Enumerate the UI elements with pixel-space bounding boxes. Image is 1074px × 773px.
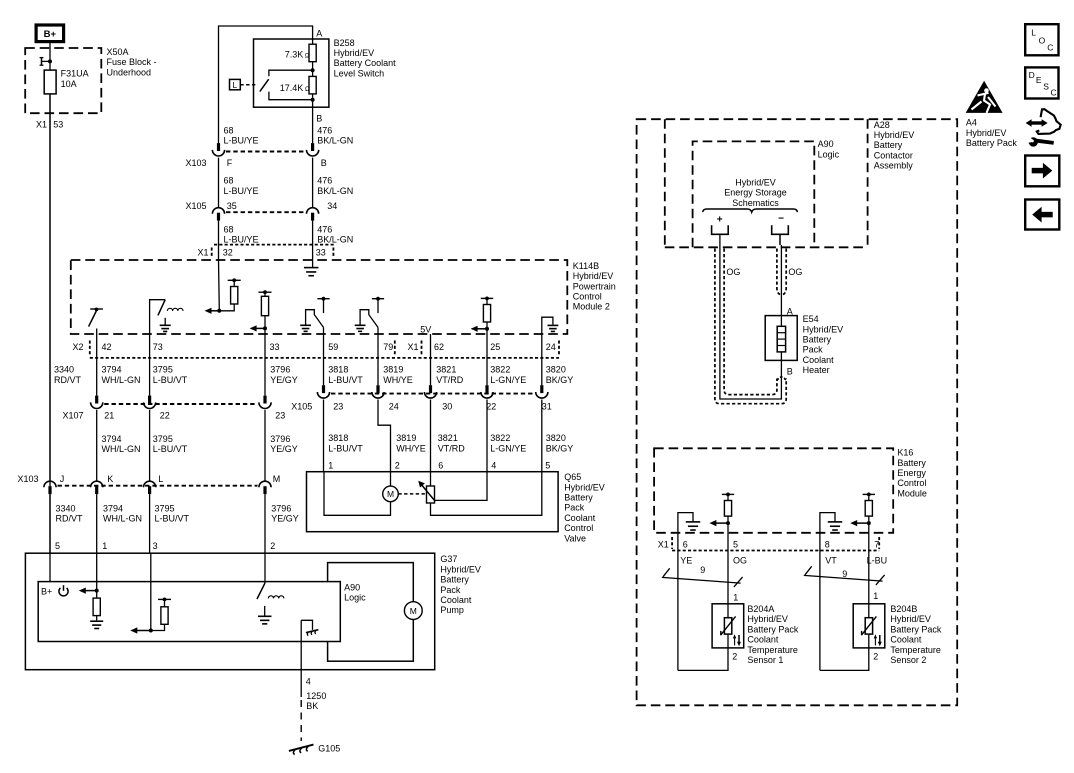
svg-text:YE/GY: YE/GY <box>271 514 299 524</box>
brace over battery terminals <box>703 209 798 212</box>
svg-text:Logic: Logic <box>818 149 840 159</box>
label G37 Hybrid/EV Battery Pack Coolant Pump <box>440 554 481 615</box>
svg-text:YE/GY: YE/GY <box>270 444 298 454</box>
motor M in Q65 <box>383 486 399 502</box>
label B204A Hybrid/EV Battery Pack Coolant Temperature Sensor 1 <box>747 604 799 665</box>
label X103 J K L M <box>18 474 281 484</box>
wire label 3820 BK/GY lower <box>546 433 574 453</box>
svg-text:5V: 5V <box>420 325 431 335</box>
internal ground on pin 8 <box>820 513 842 533</box>
svg-text:Battery: Battery <box>803 335 832 345</box>
svg-text:Sensor 1: Sensor 1 <box>747 655 783 665</box>
wire label 68 L-BU/YE <box>224 176 259 196</box>
label 17.4K ohm <box>280 83 310 93</box>
wire YE <box>677 533 679 671</box>
svg-text:BK/GY: BK/GY <box>546 375 574 385</box>
signal arrow (input) on pin 32 <box>205 308 220 314</box>
svg-text:Assembly: Assembly <box>874 161 914 171</box>
svg-text:M: M <box>273 474 281 484</box>
label B pin E54 <box>787 366 793 376</box>
svg-text:+: + <box>717 214 723 225</box>
ground G105 rake <box>289 745 314 755</box>
svg-text:L: L <box>1031 27 1036 37</box>
wire - valve bottom loop to pin 5 <box>431 472 542 516</box>
svg-text:B: B <box>316 114 322 124</box>
svg-text:A28: A28 <box>874 120 890 130</box>
svg-text:4: 4 <box>306 677 311 687</box>
wire label 3795 L-BU/VT lower2 <box>155 503 190 523</box>
svg-text:2: 2 <box>270 541 275 551</box>
wire 3822 L-GN/YE to X105 <box>486 334 488 385</box>
label OG left <box>726 267 740 277</box>
ground contact under pin2 switch <box>258 606 272 624</box>
svg-text:5: 5 <box>733 540 738 550</box>
label OG sensor <box>733 555 747 565</box>
internal switch on pin 42 <box>89 308 103 335</box>
resistor 17.4K ohm <box>309 70 316 100</box>
svg-text:30: 30 <box>442 402 452 412</box>
svg-text:G105: G105 <box>318 744 340 754</box>
svg-text:33: 33 <box>270 342 280 352</box>
thermistor in B204B <box>862 616 877 635</box>
svg-text:Ω: Ω <box>305 53 310 59</box>
level sensor bulb L <box>230 79 241 90</box>
svg-text:B258: B258 <box>334 38 355 48</box>
svg-text:42: 42 <box>102 342 112 352</box>
svg-text:35: 35 <box>227 201 237 211</box>
wire label 3818 L-BU/VT <box>328 365 363 385</box>
svg-text:Control: Control <box>897 478 926 488</box>
wire label 3794 WH/L-GN <box>102 365 141 385</box>
wire 3821 VT/RD to X105 <box>430 334 432 385</box>
connector X1 row (dotted) <box>212 245 334 257</box>
svg-text:Battery: Battery <box>874 140 903 150</box>
wire label 3795 L-BU/VT lower <box>153 434 188 454</box>
fuse tap clip symbol <box>40 58 50 66</box>
wire label 3795 L-BU/VT <box>153 365 188 385</box>
svg-text:3796: 3796 <box>270 365 290 375</box>
float switch upper contact <box>269 70 313 76</box>
icon box forward arrow <box>1025 156 1059 187</box>
pull-up resistor on pin 5 <box>722 493 734 533</box>
svg-text:Energy Storage: Energy Storage <box>724 188 787 198</box>
connector X105 pin 35 <box>212 208 224 221</box>
component box E54 <box>765 316 797 361</box>
svg-text:Hybrid/EV: Hybrid/EV <box>874 130 915 140</box>
wire 3794 WH/L-GN to X107 <box>96 334 98 396</box>
svg-text:Hybrid/EV: Hybrid/EV <box>564 482 605 492</box>
svg-text:Coolant: Coolant <box>440 595 472 605</box>
component box B204A <box>712 604 744 648</box>
svg-text:B: B <box>787 366 793 376</box>
svg-text:5: 5 <box>55 541 60 551</box>
svg-text:L-BU/VT: L-BU/VT <box>328 443 363 453</box>
svg-text:Pack: Pack <box>803 345 824 355</box>
svg-text:Pump: Pump <box>440 605 464 615</box>
svg-text:Battery Pack: Battery Pack <box>966 138 1018 148</box>
internal relay switch on pin 73 <box>150 300 166 334</box>
wire label 476 BK/L-GN <box>317 125 353 145</box>
wire through E54 <box>780 316 782 361</box>
svg-text:Q65: Q65 <box>564 472 581 482</box>
wire - Q65 pin2 to motor top <box>390 472 392 486</box>
label B258 Hybrid/EV Battery Coolant Level Switch <box>334 38 397 79</box>
label A90 Logic <box>344 583 366 603</box>
svg-text:1: 1 <box>873 591 878 601</box>
svg-text:62: 62 <box>434 342 444 352</box>
wire 3340 RD/VT label <box>54 365 82 385</box>
wire to G37 <box>149 494 151 553</box>
thermistor in B204A <box>721 616 736 635</box>
wire 3821 to Q65 pin 6 <box>430 400 432 472</box>
svg-text:K16: K16 <box>897 448 913 458</box>
svg-text:2: 2 <box>395 461 400 471</box>
svg-text:5: 5 <box>545 461 550 471</box>
wire - pin3 to junction <box>150 553 152 630</box>
svg-text:Coolant: Coolant <box>747 635 779 645</box>
svg-text:476: 476 <box>317 125 332 135</box>
label + terminal <box>717 214 723 225</box>
icon service manual hand <box>1026 109 1061 146</box>
svg-text:Level Switch: Level Switch <box>334 68 385 78</box>
svg-text:BK: BK <box>306 701 318 711</box>
conduit outline outer <box>715 249 786 404</box>
label X1 32 33 <box>198 248 326 258</box>
svg-text:Battery: Battery <box>564 493 593 503</box>
svg-text:53: 53 <box>53 120 63 130</box>
label 9 right <box>842 569 847 579</box>
svg-text:3820: 3820 <box>546 365 566 375</box>
wire - battery - (OG) to E54 A <box>780 234 781 315</box>
svg-text:34: 34 <box>327 201 337 211</box>
svg-text:Hybrid/EV: Hybrid/EV <box>334 48 375 58</box>
svg-text:F31UA: F31UA <box>61 69 89 79</box>
dashed connector line X107 <box>104 403 257 405</box>
svg-text:A90: A90 <box>344 583 360 593</box>
svg-text:33: 33 <box>316 248 326 258</box>
relay coil in A90 <box>268 596 284 599</box>
module K16 (dashed box) <box>654 448 893 533</box>
svg-text:25: 25 <box>490 342 500 352</box>
wire label 3794 WH/L-GN lower2 <box>103 503 142 523</box>
svg-text:2: 2 <box>873 651 878 661</box>
pull-up resistor on pin 33 <box>259 290 272 334</box>
svg-text:OG: OG <box>788 267 802 277</box>
float switch blade <box>260 79 269 91</box>
svg-text:VT: VT <box>825 555 837 565</box>
svg-text:X2: X2 <box>73 342 84 352</box>
signal arrow on pin 7 <box>850 520 871 526</box>
conduit upper segment around - wire <box>777 249 786 295</box>
battery pack A4 (dashed box) <box>637 119 958 705</box>
svg-text:F: F <box>227 158 233 168</box>
ground at pin 79 switch <box>355 325 366 331</box>
svg-text:10A: 10A <box>61 79 77 89</box>
sense resistor pin3 <box>151 598 171 631</box>
svg-text:3822: 3822 <box>490 433 510 443</box>
svg-text:B: B <box>321 158 327 168</box>
svg-text:68: 68 <box>224 176 234 186</box>
temp arrows in B204A <box>733 634 741 646</box>
wire 3796 YE/GY to X107 <box>264 334 266 396</box>
label VT <box>825 555 837 565</box>
battery - terminal <box>772 225 789 234</box>
wire - pin B down to connector X103 B <box>312 100 314 143</box>
icon box back arrow <box>1025 200 1059 230</box>
wire - X1 pin 32 into module <box>218 260 221 311</box>
wire label 3794 WH/L-GN lower <box>102 434 141 454</box>
svg-text:24: 24 <box>546 342 556 352</box>
svg-text:OG: OG <box>726 267 740 277</box>
internal ground on pin 24 <box>542 317 559 334</box>
wire - pin1 to driver junction <box>96 553 98 590</box>
svg-text:1: 1 <box>328 461 333 471</box>
label A pin E54 <box>787 306 793 316</box>
label A90 Logic right <box>818 139 840 159</box>
component box B204B <box>853 604 885 648</box>
svg-text:3821: 3821 <box>438 433 458 443</box>
valve arrow <box>418 481 435 502</box>
svg-text:C: C <box>1051 88 1057 98</box>
label OG right <box>788 267 802 277</box>
connector X103 pin F <box>212 143 224 156</box>
signal arrow on pin 25 <box>471 326 489 332</box>
svg-text:X103: X103 <box>18 474 39 484</box>
svg-text:8: 8 <box>825 540 830 550</box>
pull-down resistor pin1 <box>93 591 100 621</box>
svg-text:WH/YE: WH/YE <box>383 375 413 385</box>
internal switch on pin 79 <box>360 297 384 334</box>
wire label 3822 L-GN/YE lower <box>490 433 526 453</box>
connector row X2/X1 (dotted) <box>90 341 559 358</box>
svg-text:Coolant: Coolant <box>564 513 596 523</box>
svg-text:J: J <box>60 474 65 484</box>
label 7.3K ohm <box>285 49 310 59</box>
svg-text:BK/L-GN: BK/L-GN <box>317 136 353 146</box>
svg-text:−: − <box>778 213 784 224</box>
connector X105 pin 31 <box>536 385 548 398</box>
svg-text:17.4K: 17.4K <box>280 83 304 93</box>
svg-text:59: 59 <box>328 342 338 352</box>
svg-text:73: 73 <box>153 342 163 352</box>
wire 3820 BK/GY to X105 <box>541 334 543 385</box>
float switch lower contact <box>269 92 313 100</box>
svg-text:1: 1 <box>733 593 738 603</box>
wire 68 L-BU/YE seg3 <box>218 221 220 260</box>
label X1 53 at fuse block exit <box>36 120 63 130</box>
wire 3340 RD/VT to X103 J <box>49 94 51 481</box>
wire 476 BK/L-GN seg2 <box>312 158 314 207</box>
svg-text:7: 7 <box>874 540 879 550</box>
labels Q65 pins 1 2 6 4 5 <box>328 461 550 471</box>
power symbol <box>59 585 68 596</box>
svg-text:68: 68 <box>224 125 234 135</box>
fuse block X50A (dashed box) <box>25 48 101 113</box>
wire - pin2 to relay switch <box>264 553 266 583</box>
svg-text:YE/GY: YE/GY <box>270 375 298 385</box>
svg-text:79: 79 <box>383 342 393 352</box>
wire label 476 BK/L-GN <box>317 176 353 196</box>
conduit cap below E54 B <box>777 377 786 381</box>
warning triangle A4 high voltage <box>966 81 1003 113</box>
connector X105 pin 23 <box>317 385 329 398</box>
svg-text:Pack: Pack <box>564 503 585 513</box>
connector X103 pin B <box>307 143 319 156</box>
signal arrow to power control <box>79 588 99 594</box>
svg-text:L-GN/YE: L-GN/YE <box>490 443 526 453</box>
svg-text:3820: 3820 <box>546 433 566 443</box>
wire to G37 <box>49 494 51 553</box>
chassis ground rake <box>306 630 318 636</box>
component box G37 <box>25 553 434 670</box>
svg-text:G37: G37 <box>440 554 457 564</box>
wire label 68 L-BU/YE <box>224 224 259 244</box>
svg-text:Hybrid/EV: Hybrid/EV <box>735 178 776 188</box>
svg-text:L-BU/VT: L-BU/VT <box>155 514 190 524</box>
svg-text:68: 68 <box>224 224 234 234</box>
wire - valve side to pin 4 <box>435 472 488 501</box>
svg-text:X103: X103 <box>186 158 207 168</box>
svg-text:Hybrid/EV: Hybrid/EV <box>747 614 788 624</box>
svg-text:A90: A90 <box>818 139 834 149</box>
svg-text:22: 22 <box>160 410 170 420</box>
twisted pair symbol left <box>662 568 743 587</box>
label A4 Hybrid/EV Battery Pack <box>966 118 1018 148</box>
svg-text:Battery Coolant: Battery Coolant <box>334 58 397 68</box>
svg-text:K: K <box>107 474 113 484</box>
svg-text:Temperature: Temperature <box>747 645 798 655</box>
svg-text:Energy: Energy <box>897 468 926 478</box>
svg-text:Hybrid/EV: Hybrid/EV <box>573 271 614 281</box>
svg-text:Pack: Pack <box>440 585 461 595</box>
svg-text:L-BU: L-BU <box>867 555 888 565</box>
svg-text:Module 2: Module 2 <box>573 302 610 312</box>
connector X103 pin K <box>91 481 103 494</box>
wire VT <box>819 533 821 671</box>
relay coil <box>167 308 183 311</box>
svg-text:3794: 3794 <box>102 434 122 444</box>
wire 3795 L-BU/VT to X107 <box>149 334 151 396</box>
svg-text:A4: A4 <box>966 118 977 128</box>
internal ground on pin 33 <box>304 268 319 276</box>
label K114B Hybrid/EV Powertrain Control Module 2 <box>573 261 616 312</box>
svg-text:X105: X105 <box>291 402 312 412</box>
wire 3819 with jog to Q65 pin 2 <box>378 400 391 472</box>
svg-text:OG: OG <box>733 555 747 565</box>
label F31UA 10A <box>61 69 89 89</box>
label L-BU <box>867 555 888 565</box>
label pin 1 B204A <box>733 593 738 603</box>
svg-text:1: 1 <box>102 541 107 551</box>
wire - G37 pin4 down <box>300 620 302 697</box>
junction dot between resistors <box>311 68 315 72</box>
wire label 3821 VT/RD lower <box>438 433 466 453</box>
wire - B204B return loop <box>820 648 869 671</box>
svg-text:M: M <box>387 489 394 499</box>
connector X105 pin 22 <box>481 385 493 398</box>
svg-text:3796: 3796 <box>270 434 290 444</box>
pull-up resistor on pin 32 <box>219 278 240 310</box>
svg-text:X105: X105 <box>186 201 207 211</box>
svg-text:Control: Control <box>564 523 593 533</box>
svg-text:X1: X1 <box>408 342 419 352</box>
relay switch blade in A90 <box>257 583 265 599</box>
wire 68 L-BU/YE seg2 <box>218 158 220 207</box>
svg-text:22: 22 <box>486 402 496 412</box>
label B+ inside A90 <box>41 586 52 596</box>
label YE <box>680 555 692 565</box>
label 9 left <box>700 565 705 575</box>
svg-text:3819: 3819 <box>396 433 416 443</box>
wire 3796 seg below X107 <box>264 410 266 481</box>
wire label 3819 WH/YE lower <box>396 433 426 453</box>
wire 3819 WH/YE to X105 <box>377 334 379 385</box>
twisted pair symbol right <box>804 566 885 585</box>
signal arrow on pin 5 <box>709 520 730 526</box>
icon box DESC <box>1025 67 1058 98</box>
ground under pin1 resistor <box>90 621 103 628</box>
svg-text:9: 9 <box>842 569 847 579</box>
wire - loop from pin A over to left leg <box>219 26 313 143</box>
svg-text:S: S <box>1043 81 1049 91</box>
wire through B204B <box>868 604 870 648</box>
svg-text:Battery: Battery <box>897 458 926 468</box>
svg-text:Hybrid/EV: Hybrid/EV <box>803 324 844 334</box>
wire label 3818 L-BU/VT lower <box>328 433 363 453</box>
dashed connector line X105 <box>226 211 305 213</box>
pull-up resistor on pin 7 <box>863 493 875 533</box>
svg-text:L-BU/YE: L-BU/YE <box>224 235 259 245</box>
ground at pin 59 switch <box>300 325 311 331</box>
svg-text:X1: X1 <box>658 540 669 550</box>
label K16 Battery Energy Control Module <box>897 448 927 499</box>
label X103 F B <box>186 158 327 168</box>
svg-text:23: 23 <box>333 402 343 412</box>
wire 3795 seg below X107 <box>149 410 151 481</box>
label Hybrid/EV Energy Storage Schematics <box>724 178 787 208</box>
svg-text:WH/L-GN: WH/L-GN <box>103 514 142 524</box>
connector X103 pin M <box>259 481 271 494</box>
label A28 Hybrid/EV Battery Contactor Assembly <box>874 120 915 171</box>
svg-text:VT/RD: VT/RD <box>436 375 464 385</box>
svg-text:Battery: Battery <box>440 575 469 585</box>
label X107 21 22 23 <box>63 410 286 420</box>
internal switch on pin 59 <box>306 297 330 334</box>
svg-text:3818: 3818 <box>328 433 348 443</box>
internal ground on pin 6 <box>678 513 700 533</box>
wire label 3340 RD/VT lower <box>56 503 84 523</box>
resistor 7.3K ohm <box>309 39 316 70</box>
svg-text:E: E <box>1036 75 1042 85</box>
label pin 2 B204A <box>732 651 737 661</box>
svg-text:O: O <box>1039 36 1046 46</box>
svg-text:WH/L-GN: WH/L-GN <box>102 444 141 454</box>
svg-text:3796: 3796 <box>271 503 291 513</box>
svg-text:B+: B+ <box>44 29 57 40</box>
svg-text:3794: 3794 <box>103 503 123 513</box>
svg-text:M: M <box>410 606 417 616</box>
temp arrows in B204B <box>874 634 882 646</box>
label Q65 Hybrid/EV Battery Pack Coolant Control Valve <box>564 472 605 543</box>
svg-text:Hybrid/EV: Hybrid/EV <box>966 128 1007 138</box>
svg-text:BK/L-GN: BK/L-GN <box>317 186 353 196</box>
fuse F31UA 10A <box>44 70 56 94</box>
svg-text:D: D <box>1029 70 1035 80</box>
wire - B204A return loop <box>678 648 728 671</box>
svg-text:A: A <box>316 29 322 39</box>
label - terminal <box>778 213 784 224</box>
svg-text:X107: X107 <box>63 410 84 420</box>
